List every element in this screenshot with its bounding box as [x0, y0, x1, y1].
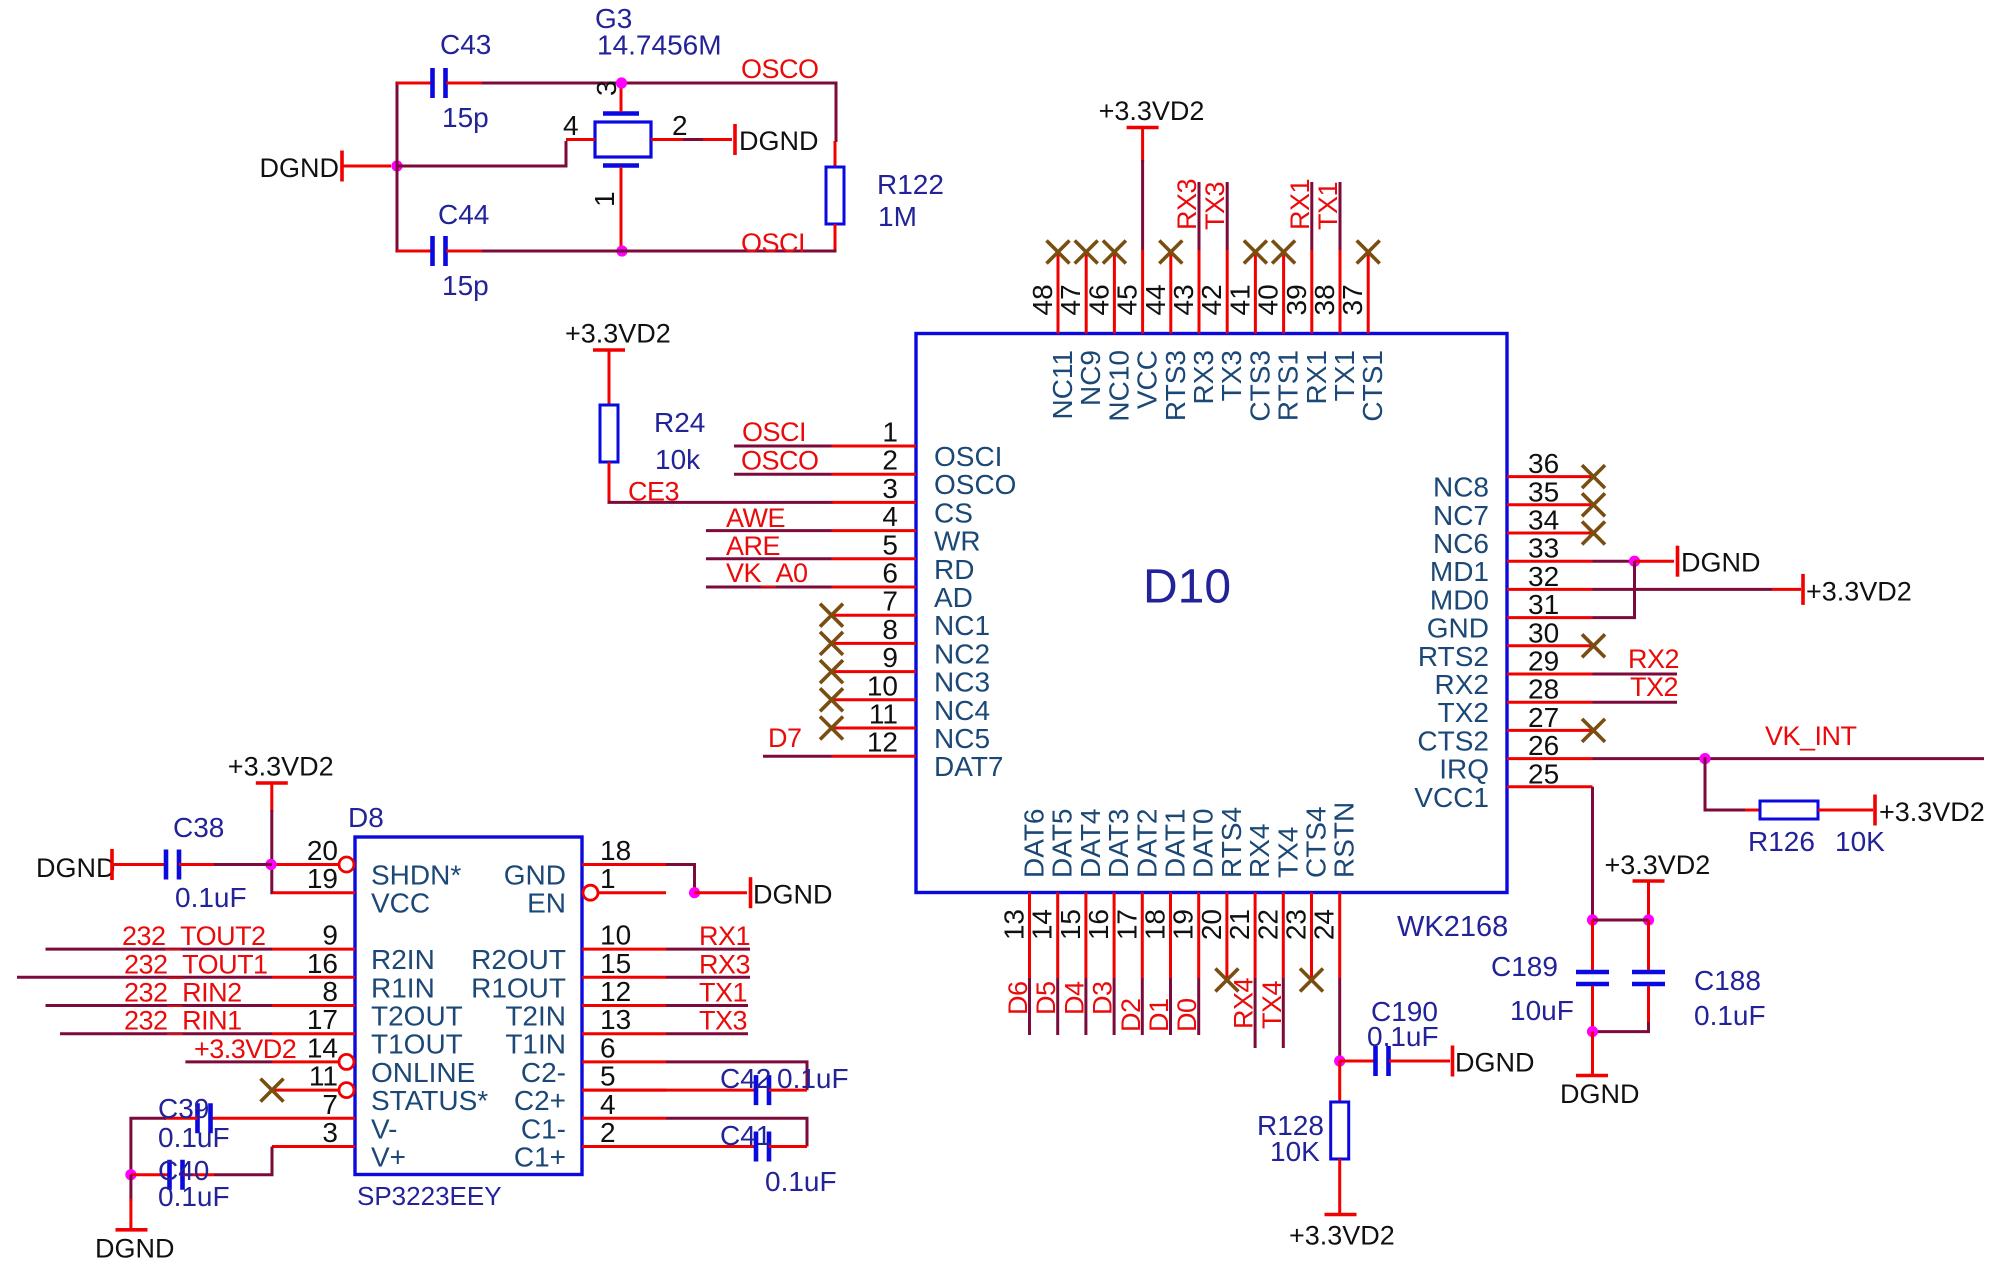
D10 pin 28 (TX2)	[1438, 674, 1593, 729]
no-connect X on D8 pin 11 (STATUS*)	[261, 1079, 284, 1102]
power stem (D8 VCC)	[270, 783, 273, 812]
D10 pin 40 (RTS1)	[1253, 250, 1304, 421]
D10 pin 9 (NC3)	[832, 642, 991, 698]
svg-text:DGND: DGND	[95, 1234, 175, 1264]
ground port DGND bar (C190)	[1451, 1046, 1455, 1077]
D10 pin 26 (IRQ)	[1439, 730, 1592, 785]
svg-text:DAT1: DAT1	[1160, 809, 1191, 879]
resistor R126 left lead	[1745, 809, 1761, 812]
svg-text:R1IN: R1IN	[371, 972, 435, 1003]
D8 pin 14 (ONLINE)	[272, 1032, 475, 1088]
capacitor C188 bottom lead	[1647, 986, 1650, 1024]
svg-text:232_TOUT1: 232_TOUT1	[124, 949, 268, 979]
svg-text:0.1uF: 0.1uF	[777, 1063, 849, 1094]
svg-text:RTS1: RTS1	[1273, 350, 1304, 421]
ground bar DGND (C189)	[1576, 1074, 1608, 1078]
svg-text:T1IN: T1IN	[505, 1029, 566, 1060]
svg-text:T1OUT: T1OUT	[371, 1029, 463, 1060]
D10 pin 20 (RTS4)	[1196, 807, 1247, 978]
no-connect X on D10 pin 11	[820, 717, 843, 740]
wire C188 bottom to C189 node	[1593, 1022, 1649, 1032]
svg-text:2: 2	[600, 1117, 616, 1148]
crystal pin4 lead	[566, 138, 595, 141]
svg-text:TX2: TX2	[1438, 697, 1489, 728]
svg-text:D1: D1	[1144, 998, 1174, 1032]
capacitor C190 left lead	[1340, 1060, 1375, 1063]
svg-text:10uF: 10uF	[1510, 995, 1574, 1026]
svg-text:0.1uF: 0.1uF	[1367, 1021, 1439, 1052]
svg-text:ARE: ARE	[726, 531, 780, 561]
svg-text:0.1uF: 0.1uF	[175, 882, 247, 913]
wire GND pin31 up to MD1 node	[1593, 561, 1635, 617]
svg-text:CTS4: CTS4	[1301, 806, 1332, 878]
no-connect X on D10 top pin 46	[1103, 241, 1126, 264]
svg-text:TX4: TX4	[1257, 980, 1287, 1029]
wire net 232_RIN2	[46, 1004, 273, 1007]
wire C39 to left rail	[131, 1118, 166, 1174]
svg-text:44: 44	[1140, 284, 1171, 315]
svg-text:RTS2: RTS2	[1418, 641, 1489, 672]
svg-text:10K: 10K	[1835, 826, 1885, 857]
svg-text:C188: C188	[1694, 965, 1761, 996]
capacitor C39	[198, 1103, 211, 1133]
D10 pin 7 (NC1)	[832, 586, 991, 642]
wire VCC pin45	[1141, 160, 1144, 250]
wire net RX3 (pin43)	[1198, 182, 1201, 250]
svg-text:R126: R126	[1748, 826, 1815, 857]
wire C1- around C41	[666, 1118, 807, 1146]
svg-text:15: 15	[1055, 909, 1086, 940]
svg-text:7: 7	[882, 586, 898, 617]
svg-text:R24: R24	[654, 407, 705, 438]
power bar +3.3VD2 (C188 node)	[1633, 879, 1665, 883]
D10 pin 21 (RX4)	[1224, 824, 1275, 978]
wire net TX3 (pin42)	[1226, 182, 1229, 250]
svg-text:NC11: NC11	[1047, 350, 1078, 420]
svg-text:18: 18	[600, 835, 631, 866]
svg-text:RX1: RX1	[699, 921, 750, 951]
wire osc left vertical	[396, 82, 399, 253]
capacitor C188 top lead	[1647, 920, 1650, 970]
ground bar DGND (bottom left)	[116, 1228, 148, 1232]
D10 pin 1 (OSCI)	[832, 417, 1003, 473]
svg-text:CTS1: CTS1	[1357, 350, 1388, 422]
power bar +3.3VD2 (R24)	[593, 348, 625, 352]
wire net OSCI to D10 pin1	[734, 445, 832, 448]
capacitor C40	[170, 1160, 183, 1190]
wire net RX4 (D10 pin 21)	[1254, 978, 1257, 1048]
D10 pin 18 (DAT1)	[1140, 809, 1191, 979]
svg-text:RX1: RX1	[1301, 350, 1332, 404]
svg-text:13: 13	[999, 909, 1030, 940]
svg-text:DAT2: DAT2	[1131, 809, 1162, 879]
no-connect X on D10 top pin 37	[1357, 241, 1380, 264]
svg-text:SHDN*: SHDN*	[371, 860, 461, 891]
svg-text:15p: 15p	[442, 102, 489, 133]
svg-text:RX3: RX3	[1172, 179, 1202, 230]
svg-text:R2OUT: R2OUT	[471, 944, 566, 975]
svg-text:19: 19	[1168, 909, 1199, 940]
power bar +3.3VD2 (D10 VCC)	[1127, 126, 1159, 130]
svg-text:40: 40	[1253, 284, 1284, 315]
crystal G3 top plate	[603, 111, 639, 116]
svg-text:TX3: TX3	[1216, 350, 1247, 401]
capacitor C190	[1376, 1046, 1389, 1076]
svg-text:TX1: TX1	[1329, 350, 1360, 401]
svg-text:0.1uF: 0.1uF	[158, 1122, 230, 1153]
capacitor C188	[1632, 972, 1665, 984]
wire C43 to crystal pin3 (OSCO node)	[482, 82, 836, 85]
D10 pin 27 (CTS2)	[1417, 702, 1592, 757]
svg-text:28: 28	[1528, 674, 1559, 705]
svg-text:NC8: NC8	[1433, 472, 1489, 503]
svg-text:30: 30	[1528, 617, 1559, 648]
svg-text:DAT3: DAT3	[1103, 809, 1134, 879]
svg-text:IRQ: IRQ	[1439, 754, 1489, 785]
lead to DGND (C189)	[1591, 1032, 1594, 1074]
svg-text:CTS3: CTS3	[1244, 350, 1275, 422]
svg-text:NC2: NC2	[934, 638, 990, 669]
svg-text:AD: AD	[934, 582, 973, 613]
wire crystal pin2 to DGND	[683, 138, 703, 141]
D10 pin 17 (DAT2)	[1111, 809, 1162, 979]
D10 pin 23 (CTS4)	[1281, 806, 1332, 978]
svg-text:NC10: NC10	[1103, 350, 1134, 422]
svg-text:RD: RD	[934, 554, 974, 585]
wire net TX2	[1593, 701, 1678, 704]
svg-text:2: 2	[672, 110, 688, 141]
wire VK_INT down to R126	[1705, 757, 1746, 810]
svg-text:20: 20	[307, 835, 338, 866]
no-connect X on D10 pin 23	[1300, 969, 1323, 992]
resistor R122 top lead	[834, 141, 837, 168]
svg-text:VK_INT: VK_INT	[1765, 721, 1857, 751]
svg-text:36: 36	[1528, 448, 1559, 479]
svg-text:NC7: NC7	[1433, 500, 1489, 531]
ground port DGND bar (D8 EN)	[749, 877, 753, 908]
D10 pin 41 (CTS3)	[1224, 250, 1275, 422]
wire net ARE to D10 pin5	[706, 557, 832, 560]
svg-text:OSCO: OSCO	[934, 469, 1016, 500]
D10 pin 4 (WR)	[832, 501, 981, 557]
D8 pin 7 (V-)	[272, 1089, 397, 1145]
svg-text:43: 43	[1168, 284, 1199, 315]
D8 pin 9 (R2IN)	[272, 920, 435, 976]
wire net RX3 (R1OUT)	[666, 976, 750, 979]
svg-text:+3.3VD2: +3.3VD2	[194, 1034, 296, 1064]
svg-text:0.1uF: 0.1uF	[158, 1181, 230, 1212]
D8 pin 2 (C1+)	[514, 1117, 666, 1173]
wire DGND node to crystal pin4	[396, 141, 567, 166]
power stem (C188 node)	[1647, 881, 1650, 922]
capacitor C44	[433, 236, 446, 266]
resistor R126 right lead	[1818, 809, 1873, 812]
capacitor C41 left lead	[582, 1145, 756, 1148]
wire net +3.3VD2 to ONLINE	[185, 1060, 272, 1063]
no-connect X on D10 pin 20	[1215, 969, 1238, 992]
svg-text:D5: D5	[1031, 981, 1061, 1015]
D10 pin 3 (CS)	[832, 473, 973, 529]
svg-text:11: 11	[309, 1061, 338, 1092]
capacitor C190 right lead	[1389, 1060, 1450, 1063]
no-connect X on D10 top pin 47	[1075, 241, 1098, 264]
svg-text:34: 34	[1528, 505, 1559, 536]
wire net D1 (D10 pin 18)	[1169, 978, 1172, 1035]
svg-text:RTS3: RTS3	[1160, 350, 1191, 421]
junction node pin3/OSCO	[616, 77, 627, 88]
svg-text:EN: EN	[527, 888, 566, 919]
ground port DGND bar (crystal pin2)	[733, 124, 737, 155]
svg-text:+3.3VD2: +3.3VD2	[1605, 850, 1711, 880]
svg-text:RX1: RX1	[1285, 179, 1315, 230]
D10 pin 11 (NC5)	[832, 699, 991, 755]
wire MD0 to +3.3VD2	[1593, 588, 1773, 591]
svg-text:TX3: TX3	[699, 1006, 747, 1036]
svg-text:GND: GND	[504, 860, 566, 891]
svg-text:TX4: TX4	[1272, 827, 1303, 878]
power bar +3.3VD2 (R128)	[1325, 1213, 1357, 1217]
wire net RX2	[1593, 673, 1678, 676]
D8 pin 5 (C2+)	[514, 1061, 666, 1117]
D10 pin 38 (TX1)	[1309, 250, 1360, 401]
D8 pin 8 (T2OUT)	[272, 976, 463, 1032]
wire net 232_TOUT2	[46, 948, 273, 951]
svg-text:9: 9	[322, 920, 338, 951]
svg-text:R1OUT: R1OUT	[471, 972, 566, 1003]
svg-text:+3.3VD2: +3.3VD2	[228, 752, 334, 782]
svg-text:NC3: NC3	[934, 667, 990, 698]
svg-text:NC1: NC1	[934, 610, 990, 641]
svg-text:CE3: CE3	[628, 477, 679, 507]
no-connect X on D10 pin 7	[820, 604, 843, 627]
resistor R24 bottom lead	[608, 462, 611, 502]
capacitor C40 left lead	[131, 1173, 169, 1176]
svg-text:10: 10	[867, 670, 898, 701]
svg-text:18: 18	[1140, 909, 1171, 940]
svg-text:RX2: RX2	[1628, 644, 1679, 674]
svg-text:DAT5: DAT5	[1047, 809, 1078, 879]
svg-text:R122: R122	[877, 169, 944, 200]
svg-text:15p: 15p	[442, 270, 489, 301]
capacitor C39 left lead	[164, 1117, 198, 1120]
svg-text:TX1: TX1	[1313, 182, 1343, 230]
no-connect X on D10 right pin 36	[1582, 465, 1605, 488]
svg-text:OSCO: OSCO	[741, 446, 819, 476]
junction node pin1/OSCI	[616, 245, 627, 256]
ground port DGND bar (MD1)	[1676, 546, 1680, 577]
D8 pin 13 (T1IN)	[505, 1004, 666, 1060]
D10 pin 46 (NC10)	[1083, 250, 1134, 422]
capacitor C39 right lead	[211, 1117, 272, 1120]
svg-text:OSCO: OSCO	[741, 54, 819, 84]
svg-text:232_RIN1: 232_RIN1	[124, 1006, 242, 1036]
svg-text:14.7456M: 14.7456M	[597, 30, 722, 61]
power port +3.3VD2 bar (MD0)	[1801, 574, 1805, 605]
svg-text:VCC: VCC	[371, 888, 430, 919]
capacitor C42	[756, 1075, 769, 1105]
wire net TX1 (pin38)	[1339, 182, 1342, 250]
svg-text:10K: 10K	[1270, 1136, 1320, 1167]
svg-text:3: 3	[882, 473, 898, 504]
svg-text:2: 2	[882, 445, 898, 476]
svg-text:NC4: NC4	[934, 695, 990, 726]
lead crystal pin2 DGND	[703, 138, 732, 141]
svg-text:16: 16	[307, 948, 338, 979]
wire RSTN down	[1338, 978, 1341, 1063]
svg-text:DAT0: DAT0	[1188, 809, 1219, 879]
wire C40 to V+ pin3	[214, 1147, 272, 1175]
svg-text:C38: C38	[173, 812, 224, 843]
svg-text:19: 19	[307, 863, 338, 894]
capacitor C189 top lead	[1591, 920, 1594, 970]
svg-text:D10: D10	[1143, 561, 1231, 614]
svg-text:41: 41	[1224, 284, 1255, 315]
wire net D3 (D10 pin 16)	[1113, 978, 1116, 1035]
svg-text:DAT4: DAT4	[1075, 809, 1106, 879]
svg-text:14: 14	[307, 1032, 338, 1063]
D8 pin 12 (T2IN)	[505, 976, 666, 1032]
power stem (R24)	[608, 350, 611, 406]
D10 pin 48 (NC11)	[1027, 250, 1078, 420]
D10 pin 2 (OSCO)	[832, 445, 1017, 501]
svg-text:TX2: TX2	[1630, 672, 1678, 702]
svg-text:24: 24	[1309, 909, 1340, 940]
svg-text:VCC1: VCC1	[1414, 782, 1489, 813]
junction node osc-left	[391, 160, 402, 171]
power stem red (D10 VCC)	[1141, 128, 1144, 163]
no-connect X on D10 top pin 48	[1047, 241, 1070, 264]
svg-text:V-: V-	[371, 1113, 397, 1144]
svg-text:TX3: TX3	[1200, 182, 1230, 230]
no-connect X on D10 right pin 34	[1582, 522, 1605, 545]
wire net CE3	[608, 501, 834, 504]
wire net VK_A0 to D10 pin6	[706, 586, 832, 589]
capacitor C40 right lead	[183, 1173, 214, 1176]
svg-text:+3.3VD2: +3.3VD2	[1879, 797, 1985, 827]
svg-text:C1+: C1+	[514, 1142, 566, 1173]
resistor R126	[1760, 801, 1818, 819]
capacitor C189 bottom lead	[1591, 986, 1594, 1033]
capacitor C43 right lead	[446, 82, 482, 85]
svg-text:DAT7: DAT7	[934, 751, 1004, 782]
svg-text:38: 38	[1309, 284, 1340, 315]
crystal G3 bottom plate	[603, 163, 639, 168]
wire rail to DGND (bottom left)	[129, 1175, 132, 1201]
wire lead DGND to junction	[343, 165, 391, 168]
svg-text:DGND: DGND	[260, 153, 340, 183]
wire net AWE to D10 pin4	[706, 529, 832, 532]
ground port DGND bar (C38)	[110, 849, 114, 880]
svg-text:DGND: DGND	[1560, 1079, 1640, 1109]
svg-text:D6: D6	[1003, 981, 1033, 1015]
svg-text:C2-: C2-	[521, 1057, 566, 1088]
svg-text:CS: CS	[934, 497, 973, 528]
svg-text:20: 20	[1196, 909, 1227, 940]
svg-text:MD1: MD1	[1430, 556, 1489, 587]
capacitor C189	[1576, 972, 1609, 984]
D8 pin 15 (R1OUT)	[471, 948, 666, 1004]
svg-text:NC6: NC6	[1433, 528, 1489, 559]
D10 pin 34 (NC6)	[1433, 505, 1593, 560]
power bar +3.3VD2 (D8 VCC)	[256, 781, 288, 785]
svg-text:DGND: DGND	[739, 126, 819, 156]
svg-text:12: 12	[867, 727, 898, 758]
crystal pin3 lead	[620, 86, 623, 112]
D8 pin 3 (V+)	[272, 1117, 406, 1173]
svg-text:1: 1	[600, 863, 616, 894]
svg-text:4: 4	[600, 1089, 616, 1120]
svg-text:26: 26	[1528, 730, 1559, 761]
junction node VK_INT	[1699, 753, 1710, 764]
wire GND pin18 to EN node	[666, 865, 695, 893]
wire net 232_RIN1	[60, 1032, 272, 1035]
svg-text:DGND: DGND	[753, 880, 833, 910]
svg-text:35: 35	[1528, 476, 1559, 507]
no-connect X on D10 top pin 40	[1272, 241, 1295, 264]
D10 pin 8 (NC2)	[832, 614, 991, 670]
wire net RX1 (R2OUT)	[666, 948, 750, 951]
lead EN node to DGND	[695, 891, 748, 894]
svg-text:OSCI: OSCI	[741, 228, 805, 258]
wire net RX1 (pin39)	[1310, 182, 1313, 250]
D8 pin 6 (C2-)	[521, 1032, 666, 1088]
D10 pin 44 (RTS3)	[1140, 250, 1191, 421]
no-connect X on D10 right pin 27	[1582, 719, 1605, 742]
svg-text:RX4: RX4	[1229, 977, 1259, 1029]
wire C38 to SHDN node	[214, 863, 272, 866]
wire net D6 (D10 pin 13)	[1028, 978, 1031, 1035]
svg-text:5: 5	[882, 529, 898, 560]
no-connect X on D10 top pin 41	[1244, 241, 1267, 264]
svg-text:+3.3VD2: +3.3VD2	[565, 319, 671, 349]
junction node C189/C188 bottom	[1587, 1026, 1598, 1037]
D10 pin 42 (TX3)	[1196, 250, 1247, 401]
svg-text:1: 1	[882, 417, 898, 448]
D10 pin 22 (TX4)	[1252, 827, 1303, 978]
svg-text:RX3: RX3	[1188, 350, 1219, 404]
D10 pin 39 (RX1)	[1281, 250, 1332, 404]
D8 pin 18 (GND)	[504, 835, 666, 891]
junction node power/C188	[1643, 914, 1654, 925]
svg-text:WR: WR	[934, 526, 981, 557]
wire between power junctions	[1593, 919, 1649, 922]
svg-text:D0: D0	[1172, 998, 1202, 1032]
svg-text:32: 32	[1528, 561, 1559, 592]
capacitor C43	[433, 68, 446, 98]
svg-text:48: 48	[1027, 284, 1058, 315]
svg-text:+3.3VD2: +3.3VD2	[1289, 1221, 1395, 1251]
D10 pin 15 (DAT4)	[1055, 809, 1106, 979]
svg-text:C43: C43	[440, 29, 491, 60]
D8 pin 20 (SHDN*)	[272, 835, 461, 891]
svg-text:D8: D8	[348, 802, 384, 833]
svg-text:42: 42	[1196, 284, 1227, 315]
svg-text:46: 46	[1083, 284, 1114, 315]
svg-text:GND: GND	[1427, 613, 1489, 644]
D10 pin 45 (VCC)	[1112, 250, 1163, 409]
resistor R128 bottom lead	[1338, 1159, 1341, 1213]
D10 pin 37 (CTS1)	[1337, 250, 1388, 422]
svg-text:8: 8	[322, 976, 338, 1007]
wire net D7 to D10 pin12	[763, 755, 832, 758]
wire OSCO vertical to R122	[835, 82, 838, 143]
svg-text:12: 12	[600, 976, 631, 1007]
svg-text:DGND: DGND	[36, 853, 116, 883]
svg-text:15: 15	[600, 948, 631, 979]
D8 pin 16 (R1IN)	[272, 948, 435, 1004]
svg-text:DGND: DGND	[1681, 548, 1761, 578]
svg-text:TX1: TX1	[699, 978, 747, 1008]
